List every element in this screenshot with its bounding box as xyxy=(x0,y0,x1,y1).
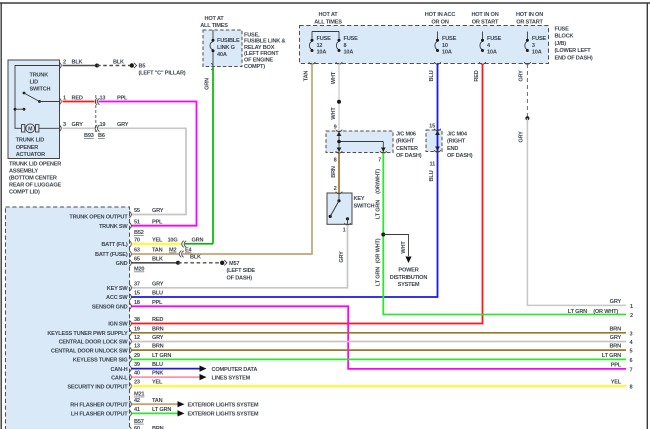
svg-text:BATT (F/L): BATT (F/L) xyxy=(101,242,128,248)
svg-text:19: 19 xyxy=(100,122,106,128)
fuse block caption xyxy=(555,26,593,61)
trunk lid switch xyxy=(14,92,60,111)
svg-text:PPL: PPL xyxy=(152,219,163,225)
svg-text:B5: B5 xyxy=(139,64,146,70)
pin 40 CAN-L xyxy=(111,371,163,382)
pin 9 of J/C M06 xyxy=(334,125,343,132)
node B5 left C pillar xyxy=(130,63,186,77)
svg-text:KEYLESS TUNER PWR SUPPLY: KEYLESS TUNER PWR SUPPLY xyxy=(47,331,128,337)
svg-text:10A: 10A xyxy=(344,49,354,55)
svg-text:BLU: BLU xyxy=(152,362,163,368)
svg-text:ACC SW: ACC SW xyxy=(106,295,128,301)
right edge terminal 5 BRN xyxy=(609,344,632,355)
svg-text:(OR/WHT): (OR/WHT) xyxy=(375,169,381,194)
hot in on or start label (fuse 3) xyxy=(516,12,544,25)
svg-text:TRUNK SW: TRUNK SW xyxy=(99,224,128,230)
svg-text:BRN: BRN xyxy=(152,326,164,332)
svg-text:CAN-L: CAN-L xyxy=(111,375,128,381)
wire RED trunk pin 1 xyxy=(63,95,95,101)
connector label M21 xyxy=(134,392,144,398)
BLU label rotated xyxy=(429,70,435,81)
svg-text:(OR WHT): (OR WHT) xyxy=(375,238,381,263)
svg-text:PPL: PPL xyxy=(611,363,622,369)
svg-text:B6: B6 xyxy=(98,133,105,139)
svg-text:1: 1 xyxy=(63,95,66,101)
fuse 4 10A xyxy=(480,32,502,56)
connector label B57 xyxy=(134,419,144,425)
wire PPL sensor gnd to right edge terminal 7 xyxy=(132,306,627,369)
pin 23 SECURITY IND OUTPUT xyxy=(67,380,163,391)
J/C M04 caption xyxy=(447,131,473,159)
GRY label rotated (upper) xyxy=(519,70,525,82)
svg-text:TRUNK LID: TRUNK LID xyxy=(16,138,45,144)
svg-text:10G: 10G xyxy=(168,238,178,244)
pin 13 CENTRAL DOOR UNLOCK SW xyxy=(51,344,164,355)
pin 7 of J/C M06 xyxy=(378,151,387,163)
svg-text:B57: B57 xyxy=(134,419,144,425)
wire WHT branch to power distribution system xyxy=(383,235,408,257)
fuse block J/B box xyxy=(300,26,549,64)
svg-text:(LEFT SIDE: (LEFT SIDE xyxy=(227,268,256,274)
svg-text:GRY: GRY xyxy=(339,251,345,263)
svg-text:12: 12 xyxy=(134,335,140,341)
svg-text:GRY: GRY xyxy=(152,335,164,341)
svg-text:WHT: WHT xyxy=(331,71,337,84)
wire BRN from J/C M06 pin 8 to key switch xyxy=(338,153,340,193)
connector pins 13 xyxy=(95,95,105,105)
svg-text:RED: RED xyxy=(72,95,83,101)
svg-text:TAN: TAN xyxy=(152,248,163,254)
svg-text:ALL TIMES: ALL TIMES xyxy=(200,23,228,29)
svg-text:CENTRAL DOOR UNLOCK SW: CENTRAL DOOR UNLOCK SW xyxy=(51,348,129,354)
svg-text:LT GRN: LT GRN xyxy=(602,353,621,359)
svg-text:1: 1 xyxy=(630,304,633,310)
svg-text:BLK: BLK xyxy=(72,59,83,65)
svg-text:19: 19 xyxy=(134,326,140,332)
svg-text:2: 2 xyxy=(334,186,337,192)
splice 10G connector xyxy=(168,238,187,248)
pin 60 xyxy=(129,426,163,429)
svg-text:(LOWER LEFT: (LOWER LEFT xyxy=(555,48,592,54)
arrow to power distribution system xyxy=(405,257,411,264)
wire LT GRN pin 41 xyxy=(132,412,179,414)
arrow to exterior lights system (LH) xyxy=(178,410,185,416)
svg-text:PPL: PPL xyxy=(152,300,163,306)
J/C M06 internal junction node xyxy=(337,140,341,144)
BLU label rotated below J/C M04 xyxy=(429,170,435,181)
svg-text:BLU: BLU xyxy=(429,170,435,181)
svg-text:63: 63 xyxy=(134,248,140,254)
svg-text:SWITCH: SWITCH xyxy=(354,203,375,209)
wire GRY from pin 19 to trunk open output pin 55 xyxy=(99,122,187,214)
pin 18 SENSOR GND xyxy=(92,300,163,311)
right edge terminal 7 PPL xyxy=(611,363,633,374)
svg-text:40A: 40A xyxy=(217,52,227,58)
OR/WHT label rotated below splice xyxy=(375,238,381,263)
svg-text:DISTRIBUTION: DISTRIBUTION xyxy=(390,275,428,281)
svg-text:LID: LID xyxy=(30,80,39,86)
svg-text:10A: 10A xyxy=(487,49,497,55)
wire PPL from pin 13 to trunk SW pin 51 xyxy=(99,95,197,225)
svg-text:HOT IN ON: HOT IN ON xyxy=(471,12,498,18)
svg-text:CENTRAL DOOR LOCK SW: CENTRAL DOOR LOCK SW xyxy=(59,340,129,346)
pin 15 ACC SW xyxy=(106,291,163,302)
svg-text:42: 42 xyxy=(134,398,140,404)
svg-text:51: 51 xyxy=(134,219,140,225)
svg-text:GRY: GRY xyxy=(117,122,129,128)
fusible link box xyxy=(203,30,242,67)
pin 51 TRUNK SW xyxy=(99,219,163,230)
svg-text:YEL: YEL xyxy=(152,238,163,244)
connector pins 19 xyxy=(95,122,105,132)
svg-text:GND: GND xyxy=(116,261,128,267)
connector labels B93 B6 xyxy=(84,133,105,139)
svg-text:BLOCK: BLOCK xyxy=(555,34,574,40)
svg-text:YEL: YEL xyxy=(152,380,163,386)
svg-text:ASSEMBLY: ASSEMBLY xyxy=(9,168,38,174)
fusible link G 40A xyxy=(210,30,240,67)
svg-text:KEYLESS TUNER SIG: KEYLESS TUNER SIG xyxy=(73,358,128,364)
svg-text:(J/B): (J/B) xyxy=(555,41,567,47)
wire WHT from fuse 8 to J/C M06 pin 9 xyxy=(336,62,343,131)
svg-text:LT GRN: LT GRN xyxy=(568,309,587,315)
wire LT GRN pin 29 to right edge terminal 6 xyxy=(132,358,627,360)
svg-text:HOT AT: HOT AT xyxy=(319,12,339,18)
svg-text:M20: M20 xyxy=(134,267,144,273)
right edge terminal 4 GRY xyxy=(610,335,634,346)
svg-text:LINES SYSTEM: LINES SYSTEM xyxy=(212,375,251,381)
svg-text:FUSE: FUSE xyxy=(487,36,502,42)
svg-text:HOT IN ACC: HOT IN ACC xyxy=(425,12,456,18)
svg-text:COMPT): COMPT) xyxy=(244,64,265,70)
pin 70 BATT (F/L) xyxy=(101,238,163,249)
svg-text:RED: RED xyxy=(152,317,163,323)
trunk lid switch label xyxy=(30,72,51,92)
svg-text:OR START: OR START xyxy=(516,19,543,25)
arrow to computer data lines system (CAN-H) xyxy=(200,366,207,372)
svg-text:2: 2 xyxy=(63,59,66,65)
svg-text:EXTERIOR LIGHTS SYSTEM: EXTERIOR LIGHTS SYSTEM xyxy=(188,402,259,408)
svg-text:29: 29 xyxy=(134,353,140,359)
connector label M20 xyxy=(134,267,144,273)
fuse 10 10A xyxy=(435,32,457,56)
junction connector J/C M06 box xyxy=(326,131,393,153)
svg-text:BLU: BLU xyxy=(429,70,435,81)
svg-text:ACTUATOR: ACTUATOR xyxy=(16,152,45,158)
connector label B52 xyxy=(134,230,144,236)
fuse 8 10A xyxy=(336,33,358,55)
pin 37 KEY SW xyxy=(107,281,164,292)
splice node on GRY wire xyxy=(525,116,529,120)
svg-text:POWER: POWER xyxy=(398,268,418,274)
wire BRN pin 19 to right edge terminal 3 xyxy=(132,332,627,334)
svg-text:8: 8 xyxy=(344,43,347,49)
splice node on BLK wire xyxy=(95,64,99,68)
trunk pin 3 xyxy=(59,122,66,132)
splice node on GND wire xyxy=(176,261,180,265)
svg-text:3: 3 xyxy=(63,122,66,128)
svg-text:BLU: BLU xyxy=(152,291,163,297)
svg-text:COMPUTER DATA: COMPUTER DATA xyxy=(212,367,258,373)
svg-text:5: 5 xyxy=(630,349,633,355)
svg-text:39: 39 xyxy=(134,362,140,368)
svg-text:OF DASH): OF DASH) xyxy=(396,153,422,159)
svg-text:FUSE,: FUSE, xyxy=(244,32,260,38)
wire TAN pin 63 xyxy=(132,253,180,255)
trunk lid switch internal wiring rail xyxy=(15,66,60,129)
svg-text:GRY: GRY xyxy=(152,281,164,287)
svg-text:CENTER: CENTER xyxy=(396,146,418,152)
key switch box xyxy=(327,193,352,224)
svg-text:(OR WHT): (OR WHT) xyxy=(593,309,618,315)
svg-text:ALL TIMES: ALL TIMES xyxy=(314,19,342,25)
trunk pin 1 xyxy=(59,95,66,105)
svg-text:LT GRN: LT GRN xyxy=(375,267,381,286)
junction connector J/C M04 box xyxy=(426,130,442,152)
wire BLU from fuse 10 through J/C M04 to ACC SW xyxy=(132,62,441,297)
hot in on or start label (fuse 4) xyxy=(471,12,499,25)
svg-text:OPENER: OPENER xyxy=(16,145,39,151)
pin 38 IGN SW xyxy=(108,317,163,328)
svg-text:7: 7 xyxy=(378,158,381,164)
svg-text:IGN SW: IGN SW xyxy=(108,322,128,328)
svg-text:37: 37 xyxy=(134,281,140,287)
svg-text:SENSOR GND: SENSOR GND xyxy=(92,305,128,311)
svg-text:FUSE: FUSE xyxy=(532,36,547,42)
pin 12 CENTRAL DOOR LOCK SW xyxy=(59,335,164,346)
svg-text:BLK: BLK xyxy=(152,256,163,262)
svg-text:8: 8 xyxy=(630,385,633,391)
svg-text:LT GRN: LT GRN xyxy=(375,200,381,219)
svg-text:FUSIBLE: FUSIBLE xyxy=(217,38,240,44)
svg-text:M2: M2 xyxy=(169,248,176,254)
right edge terminal 6 LT GRN xyxy=(602,353,633,364)
svg-text:OF DASH): OF DASH) xyxy=(227,275,253,281)
wire BLU CAN-H xyxy=(132,368,201,370)
svg-text:FUSE: FUSE xyxy=(317,36,332,42)
svg-text:END OF DASH): END OF DASH) xyxy=(555,56,593,62)
svg-text:TRUNK: TRUNK xyxy=(30,72,49,78)
wire BLK from trunk pin 2 xyxy=(63,59,98,65)
right edge terminal 8 YEL xyxy=(611,380,633,391)
svg-text:BRN: BRN xyxy=(152,344,164,350)
svg-text:M: M xyxy=(28,127,32,133)
svg-text:11: 11 xyxy=(429,162,435,168)
wire GRN from fusible link down xyxy=(211,63,213,244)
svg-text:END: END xyxy=(447,146,458,152)
svg-text:RH FLASHER OUTPUT: RH FLASHER OUTPUT xyxy=(70,402,128,408)
svg-text:CAN-H: CAN-H xyxy=(110,367,127,373)
svg-text:FUSE: FUSE xyxy=(442,36,457,42)
right edge terminal 1 GRY xyxy=(610,299,633,310)
svg-text:3: 3 xyxy=(630,331,633,337)
right edge terminal 3 BRN xyxy=(609,326,632,337)
svg-text:FUSIBLE LINK &: FUSIBLE LINK & xyxy=(244,39,285,45)
wire GRY trunk pin 3 xyxy=(63,122,95,128)
RED label rotated xyxy=(474,70,480,81)
svg-text:E4: E4 xyxy=(185,248,193,254)
svg-text:(RIGHT: (RIGHT xyxy=(396,139,415,145)
svg-text:65: 65 xyxy=(134,256,140,262)
wire BRN pin 13 to right edge terminal 5 xyxy=(132,349,627,351)
pin 55 TRUNK OPEN OUTPUT xyxy=(69,208,163,221)
connector M2 E4 xyxy=(169,248,193,258)
dashed BLK wire to M57 xyxy=(178,254,220,262)
supply bus for fuse 12 and 8 xyxy=(312,32,339,34)
wire YEL pin 23 to right edge terminal 8 xyxy=(132,385,627,387)
svg-text:BRN: BRN xyxy=(331,166,337,178)
power distribution system label xyxy=(390,268,428,289)
svg-text:LT GRN: LT GRN xyxy=(152,407,171,413)
svg-text:BATT (FUSE): BATT (FUSE) xyxy=(95,252,128,258)
svg-text:GRY: GRY xyxy=(610,335,622,341)
pin 41 LH FLASHER OUTPUT xyxy=(71,407,171,418)
svg-text:23: 23 xyxy=(134,380,140,386)
wire GRN from connector to fusible link xyxy=(185,237,213,243)
pin 8 of J/C M06 xyxy=(334,151,343,163)
key switch pin 1 xyxy=(343,223,351,234)
wire TAN pin 42 xyxy=(132,403,179,405)
wire PNK CAN-L xyxy=(132,376,201,378)
GRY label rotated (lower) xyxy=(519,131,525,143)
wire GRY from key switch pin 1 to KEY SW xyxy=(132,225,348,288)
svg-text:KEY: KEY xyxy=(354,196,365,202)
splice node on LT GRN wire xyxy=(381,233,385,237)
pin 39 CAN-H xyxy=(110,362,163,373)
J/C M04 internal pin arrows xyxy=(435,131,440,151)
dashed BLK wire to B5 xyxy=(97,59,130,65)
svg-text:1: 1 xyxy=(343,228,346,234)
svg-text:PPL: PPL xyxy=(117,95,128,101)
svg-text:BRN: BRN xyxy=(609,326,621,332)
fuse 12 10A xyxy=(309,33,331,55)
svg-text:BLK: BLK xyxy=(113,59,124,65)
wire LT GRN (OR/WHT) from J/C M06 pin 7 to right edge terminal 2 xyxy=(383,153,626,315)
svg-text:GRY: GRY xyxy=(610,299,622,305)
svg-text:6: 6 xyxy=(630,358,633,364)
svg-text:LT GRN: LT GRN xyxy=(152,353,171,359)
svg-text:2: 2 xyxy=(630,313,633,319)
svg-text:8: 8 xyxy=(334,158,337,164)
pin 11 of J/C M04 xyxy=(429,150,440,168)
svg-text:OR START: OR START xyxy=(472,19,499,25)
BRN label rotated xyxy=(331,166,337,178)
hot at all times label (fuse block) xyxy=(314,12,342,25)
svg-text:10: 10 xyxy=(442,43,448,49)
svg-text:B52: B52 xyxy=(134,230,144,236)
svg-text:J/C M04: J/C M04 xyxy=(447,131,468,137)
svg-text:(LEFT FRONT: (LEFT FRONT xyxy=(244,51,279,57)
pin 19 KEYLESS TUNER PWR SUPPLY xyxy=(47,326,163,337)
svg-text:12: 12 xyxy=(317,43,323,49)
svg-text:(BOTTOM CENTER: (BOTTOM CENTER xyxy=(9,175,57,181)
right edge terminal 2 LT GRN xyxy=(568,309,633,319)
GRY label rotated (key switch) xyxy=(339,251,345,263)
wire GRY from splice to right edge terminal 1 xyxy=(527,118,626,305)
ground node M57 xyxy=(220,260,255,281)
TAN label rotated xyxy=(304,71,310,82)
svg-text:FUSE: FUSE xyxy=(555,26,570,32)
pin 42 RH FLASHER OUTPUT xyxy=(70,398,162,409)
svg-text:GRY: GRY xyxy=(72,122,84,128)
svg-text:55: 55 xyxy=(134,208,140,214)
svg-text:RED: RED xyxy=(474,70,480,81)
svg-text:WHT: WHT xyxy=(331,107,337,120)
svg-text:TAN: TAN xyxy=(304,71,310,82)
svg-text:SECURITY IND OUTPUT: SECURITY IND OUTPUT xyxy=(67,384,128,390)
wire RED from fuse 4 to IGN SW xyxy=(132,62,486,323)
wire YEL pin 70 xyxy=(132,243,182,245)
key switch contacts xyxy=(329,193,350,224)
svg-text:SYSTEM: SYSTEM xyxy=(398,282,420,288)
pin 29 KEYLESS TUNER SIG xyxy=(73,353,172,364)
arrow to computer data lines system (CAN-L) xyxy=(200,374,207,380)
svg-text:RELAY BOX: RELAY BOX xyxy=(244,45,275,51)
J/C M06 caption xyxy=(396,131,422,159)
svg-text:LH FLASHER OUTPUT: LH FLASHER OUTPUT xyxy=(71,412,128,418)
exterior lights system label RH xyxy=(188,402,259,408)
WHT branch label rotated xyxy=(401,241,407,254)
svg-text:GRN: GRN xyxy=(192,237,204,243)
svg-text:TRUNK OPEN OUTPUT: TRUNK OPEN OUTPUT xyxy=(69,215,128,221)
svg-text:GRY: GRY xyxy=(519,70,525,82)
svg-text:7: 7 xyxy=(630,367,633,373)
svg-text:OF ENGINE: OF ENGINE xyxy=(244,58,273,64)
svg-text:OR ON: OR ON xyxy=(431,19,448,25)
LT GRN label rotated below splice xyxy=(375,267,381,286)
svg-text:KEY SW: KEY SW xyxy=(107,286,129,292)
splice node on WHT wire xyxy=(337,100,341,104)
J/C M06 internal bus xyxy=(337,131,386,153)
svg-text:SWITCH: SWITCH xyxy=(30,87,51,93)
pin 63 BATT (FUSE) xyxy=(95,248,163,259)
dashed GRY wire from fuse 3 xyxy=(524,62,531,118)
svg-text:OF DASH): OF DASH) xyxy=(447,153,473,159)
svg-text:70: 70 xyxy=(134,238,140,244)
svg-text:38: 38 xyxy=(134,317,140,323)
svg-text:GRY: GRY xyxy=(152,208,164,214)
OR/WHT label rotated xyxy=(375,169,381,194)
trunk lid opener actuator label xyxy=(16,138,45,158)
trunk lid opener assembly box xyxy=(8,60,60,159)
fuse fusible link and relay box caption xyxy=(244,32,285,70)
pin 65 GND xyxy=(116,256,163,267)
svg-text:41: 41 xyxy=(134,407,140,413)
trunk pin 2 xyxy=(59,59,66,69)
svg-text:40: 40 xyxy=(134,371,140,377)
svg-text:BLK: BLK xyxy=(190,254,201,260)
pin 15 of J/C M04 xyxy=(429,124,441,131)
svg-text:15: 15 xyxy=(429,124,435,130)
svg-text:LINK G: LINK G xyxy=(217,45,235,51)
wire TAN from fuse 12 to BATT(FUSE) xyxy=(183,62,316,254)
motor M trunk lid opener actuator xyxy=(22,124,60,133)
svg-text:EXTERIOR LIGHTS SYSTEM: EXTERIOR LIGHTS SYSTEM xyxy=(188,412,259,418)
svg-text:18: 18 xyxy=(134,300,140,306)
connector B93/B6 dashed boundary xyxy=(95,95,97,132)
svg-text:FUSE: FUSE xyxy=(344,36,359,42)
svg-text:WHT: WHT xyxy=(401,241,407,254)
key switch pin 2 xyxy=(334,186,343,194)
svg-text:15: 15 xyxy=(134,291,140,297)
svg-text:J/C M06: J/C M06 xyxy=(396,131,416,137)
svg-text:(LEFT "C" PILLAR): (LEFT "C" PILLAR) xyxy=(139,71,186,77)
svg-text:PNK: PNK xyxy=(152,371,163,377)
svg-text:M57: M57 xyxy=(229,261,239,267)
exterior lights system label LH xyxy=(188,412,259,418)
trunk lid opener assembly caption xyxy=(9,161,61,195)
svg-text:3: 3 xyxy=(532,43,535,49)
